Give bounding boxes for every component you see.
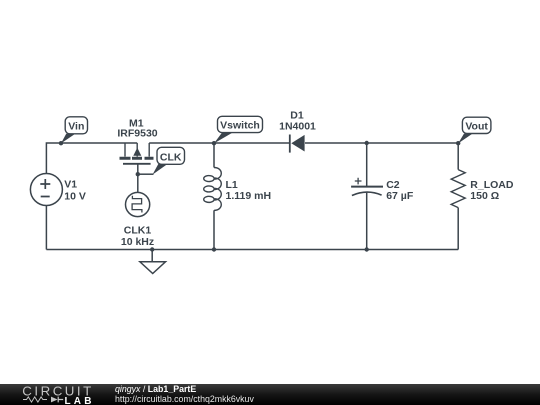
junction dot C2 bottom — [365, 247, 369, 251]
CircuitLab logo — [0, 384, 110, 405]
wire bottom rail — [46, 249, 458, 251]
junction dot inductor bottom — [212, 247, 216, 251]
wire left rail lower — [45, 206, 47, 250]
wire capacitor branch lower — [366, 193, 368, 250]
junction dot ground node — [150, 247, 154, 251]
ground — [140, 250, 166, 274]
node flag Vin — [59, 117, 88, 146]
footer text — [115, 385, 254, 404]
wire gate to clock — [137, 164, 139, 193]
svg-text:Vin: Vin — [68, 121, 84, 133]
wire top-right Vout segment — [305, 143, 458, 170]
wire inductor branch upper — [213, 143, 215, 168]
node flag Vswitch — [212, 116, 263, 145]
svg-text:CLK: CLK — [160, 151, 182, 163]
wire top-left Vin rail — [46, 143, 137, 174]
svg-text:10 kHz: 10 kHz — [121, 236, 154, 248]
clock source CLK1 — [126, 192, 150, 216]
svg-text:150 Ω: 150 Ω — [470, 190, 499, 202]
svg-text:1N4001: 1N4001 — [279, 121, 316, 133]
svg-text:10 V: 10 V — [64, 190, 86, 202]
node flag Vout — [456, 117, 491, 145]
svg-text:1.119 mH: 1.119 mH — [226, 190, 272, 202]
voltage source V1 — [30, 174, 62, 206]
junction dot C2 top — [365, 141, 369, 145]
capacitor C2 (polarized) — [351, 178, 383, 196]
wire capacitor branch upper — [366, 143, 368, 187]
svg-text:Vswitch: Vswitch — [220, 120, 260, 132]
label L1 value — [226, 179, 272, 202]
label C2 value — [386, 179, 414, 202]
svg-text:Vout: Vout — [465, 121, 488, 133]
resistor R_LOAD — [451, 170, 465, 208]
svg-text:67 µF: 67 µF — [386, 190, 414, 202]
junction dot gate node — [136, 172, 140, 176]
wire top-middle Vswitch segment — [149, 142, 289, 144]
label CLK1 value — [121, 224, 154, 248]
svg-text:V1: V1 — [64, 178, 77, 190]
wire inductor branch lower — [213, 210, 215, 249]
diode D1 — [290, 135, 305, 153]
footer bar — [0, 384, 540, 405]
wire CLK flag stub — [138, 173, 154, 175]
node flag CLK — [153, 147, 185, 174]
svg-text:R_LOAD: R_LOAD — [470, 179, 514, 191]
svg-text:IRF9530: IRF9530 — [117, 127, 157, 139]
label V1 value — [64, 178, 86, 202]
svg-text:CLK1: CLK1 — [124, 224, 152, 236]
label R_LOAD value — [470, 179, 514, 202]
svg-text:LAB: LAB — [65, 396, 95, 405]
label M1 — [117, 117, 157, 139]
transistor M1 (PMOS) — [120, 143, 154, 164]
inductor L1 — [204, 168, 222, 211]
label D1 value — [279, 110, 316, 133]
wire right rail lower — [457, 208, 459, 250]
